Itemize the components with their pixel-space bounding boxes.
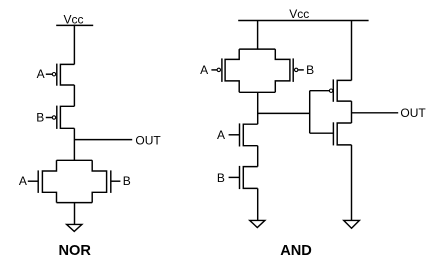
svg-text:NOR: NOR — [58, 243, 91, 259]
wire nmos A to nmos B (AND) — [257, 146, 259, 167]
wire OUT node (AND) — [352, 112, 399, 114]
svg-text:B: B — [306, 63, 314, 77]
nmos pair top bar (NOR) — [57, 159, 93, 161]
ground (NAND stack) — [250, 220, 265, 227]
wire OUT node (NOR) — [74, 139, 132, 141]
svg-text:B: B — [123, 174, 131, 188]
wire input A to nmos A — [28, 180, 38, 182]
wire input A to pmos A (AND) — [211, 69, 217, 71]
inverter pmos gate bubble — [329, 89, 332, 92]
inverter nmos gate — [332, 122, 334, 145]
ground (inverter) — [344, 220, 360, 228]
nmos pair bottom bar (NOR) — [57, 202, 93, 204]
wire inverter output bus — [351, 101, 353, 123]
nmos A (AND) channel and leads — [243, 124, 257, 146]
pmos pair top bar (AND) — [239, 48, 275, 50]
wire input B to pmos B — [46, 117, 52, 119]
wire Vcc to inverter pmos — [351, 21, 353, 81]
wire NAND node to inverter input — [258, 112, 310, 114]
wire pmos pair to nmos A — [257, 92, 259, 124]
wire pmos B to nmos pair — [73, 128, 75, 160]
svg-text:Vcc: Vcc — [63, 13, 83, 27]
wire gate bus to inverter pmos gate — [310, 90, 330, 92]
svg-text:A: A — [19, 174, 27, 188]
pmos A (NOR) gate bubble — [52, 73, 55, 76]
wire input A to nmos A (AND) — [229, 134, 240, 136]
Vcc rail (NOR) — [56, 24, 93, 26]
nmos A (NOR) gate — [37, 170, 39, 193]
nmos A (NOR) branch channel and leads — [42, 160, 56, 202]
pmos A (AND) gate bubble — [217, 68, 220, 71]
pmos pair bottom bar (AND) — [239, 91, 275, 93]
nmos B (AND) channel and leads — [243, 167, 257, 189]
svg-text:OUT: OUT — [135, 133, 161, 147]
Vcc rail (AND) — [238, 20, 368, 22]
pmos B (AND) gate bubble — [295, 68, 298, 71]
inverter nmos channel and leads — [337, 123, 351, 145]
svg-text:OUT: OUT — [400, 106, 426, 120]
wire nmos B to ground — [257, 188, 259, 220]
inverter pmos gate — [332, 79, 334, 101]
svg-text:Vcc: Vcc — [289, 7, 309, 21]
wire Vcc to pmos pair — [257, 21, 259, 49]
nmos B (NOR) branch channel and leads — [92, 160, 106, 202]
ground (NOR) — [67, 224, 82, 231]
wire gate bus to inverter nmos gate — [310, 132, 334, 134]
nmos B (AND) gate — [239, 166, 241, 189]
pmos B (AND) gate — [292, 58, 294, 82]
svg-text:AND: AND — [280, 243, 312, 259]
wire input A to pmos A — [46, 73, 52, 75]
wire pmos A to pmos B — [73, 85, 75, 106]
pmos B (AND) branch channel and leads — [275, 49, 290, 92]
pmos A (NOR) channel and leads — [60, 64, 74, 85]
svg-text:A: A — [217, 128, 225, 142]
wire inverter nmos to ground — [351, 145, 353, 221]
pmos A (AND) gate — [221, 58, 223, 82]
wire input B to nmos B (AND) — [229, 176, 240, 178]
svg-text:B: B — [36, 110, 44, 124]
wire nmos pair to ground — [74, 203, 76, 225]
wire input B to pmos B (AND) — [298, 69, 304, 71]
wire input B to nmos B — [111, 180, 121, 182]
nmos B (NOR) gate — [110, 170, 112, 193]
pmos A (NOR) gate — [56, 64, 58, 86]
inverter pmos channel and leads — [337, 80, 351, 101]
inverter gate bus — [309, 91, 311, 134]
svg-text:A: A — [200, 63, 208, 77]
svg-text:B: B — [217, 171, 225, 185]
pmos A (AND) branch channel and leads — [225, 49, 239, 92]
pmos B (NOR) gate — [56, 106, 58, 129]
nmos A (AND) gate — [239, 123, 241, 146]
pmos B (NOR) gate bubble — [52, 116, 55, 119]
pmos B (NOR) channel and leads — [60, 106, 74, 128]
svg-text:A: A — [37, 67, 45, 81]
wire Vcc to PMOS A — [73, 25, 75, 65]
